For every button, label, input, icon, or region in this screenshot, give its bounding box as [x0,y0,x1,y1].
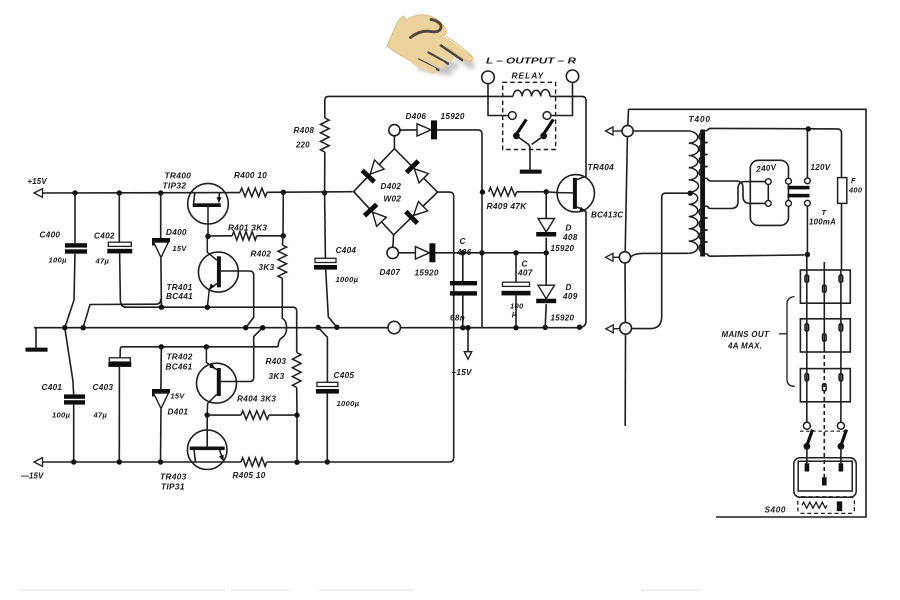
wire TR401 emitter to node [207,284,217,308]
wire mains neutral run [840,270,842,422]
mains section enclosure [629,109,867,517]
wire 0V centre rail [34,327,388,329]
svg-text:4A MAX.: 4A MAX. [727,342,762,351]
svg-text:D: D [566,283,572,292]
svg-text:100mA: 100mA [809,218,836,227]
wire R403 bottom to -15V rail [296,415,298,462]
svg-text:µ: µ [511,309,517,318]
mains out socket 2 [800,319,850,352]
svg-text:C403: C403 [93,383,114,392]
wire TR402 emitter from node line [206,347,216,370]
svg-text:MAINS OUT: MAINS OUT [722,330,770,339]
svg-text:S400: S400 [765,506,787,515]
wire 120V pin to top line [806,131,808,178]
svg-text:C: C [522,260,529,269]
relay coil [513,90,550,97]
wire primary tap crossover upper [708,179,766,204]
svg-text:R403: R403 [266,357,287,366]
transformer T400 primary winding lower [699,206,708,254]
resistor R400 10 [240,188,267,197]
svg-text:D406: D406 [406,112,427,121]
relay switch blade right [544,119,554,133]
mains plug connector outer [794,458,856,497]
wire mains live run [806,257,808,423]
mains plug connector inner [798,461,852,491]
svg-text:47µ: 47µ [95,257,110,266]
wire node line lower (D401/TR402e to R402) [122,346,278,348]
svg-text:—15V: —15V [20,472,44,481]
svg-text:RELAY: RELAY [512,71,545,81]
capacitor C402 [118,193,120,242]
wire primary top to 120V line [708,128,837,130]
svg-text:R400 10: R400 10 [234,171,267,180]
svg-text:TR402: TR402 [167,353,193,362]
svg-text:F: F [851,176,856,185]
voltage selector link bars [788,186,810,190]
wire output R to relay contact [551,82,573,115]
capacitor C407 100u [515,253,517,282]
svg-text:15V: 15V [171,392,186,401]
svg-text:120V: 120V [811,163,831,172]
junction dots on -15V rail [71,459,76,464]
resistor R403 3K3 [292,353,301,388]
transistor TR403 TIP31 [187,430,227,470]
svg-text:C402: C402 [94,232,115,241]
mains plug pin neutral [839,463,844,471]
svg-text:1000µ: 1000µ [337,399,360,408]
transistor TR402 BC461 [197,363,237,403]
diode bridge arm top-right [407,161,419,173]
node terminal to transformer top [622,125,633,136]
diode D408 15920 [545,192,547,219]
svg-text:D407: D407 [380,268,401,277]
svg-text:L – OUTPUT – R: L – OUTPUT – R [486,56,577,66]
wire node line upper (D400/TR401e to R403) [124,306,293,308]
svg-text:C400: C400 [40,231,61,240]
svg-text:68n: 68n [450,314,465,323]
svg-text:100µ: 100µ [49,256,68,265]
transistor TR404 BC413C [557,175,594,212]
junction dots on +15V rail [72,190,77,195]
svg-text:D: D [566,224,572,233]
mains plug pin live [805,463,810,471]
node bridge AC top terminal [393,136,395,149]
wire TR401 collector [207,236,217,260]
svg-text:R404 3K3: R404 3K3 [237,395,276,404]
svg-text:T400: T400 [689,114,711,124]
hand pointer icon [387,15,472,71]
voltage selector 240V block [750,160,788,225]
zener diode D401 15V [160,347,162,389]
transistor TR400 TIP32 [188,183,229,224]
diode bridge arm bottom-left [365,204,377,215]
mains plug pin earth [822,477,827,485]
fuse F400 T100mA [837,129,842,178]
resistor R404 3K3 [207,414,241,416]
wire enclosure left edge segments with terminals [627,109,630,125]
svg-text:15V: 15V [173,244,188,253]
capacitor C406 68n [462,253,464,281]
ground symbol below relay [520,170,542,174]
wire mains earth run [823,262,825,348]
wire R402 bottom jog across 0V rail to emitter line [278,278,286,347]
wire bridge negative to -15V rail [438,192,454,462]
svg-text:TIP31: TIP31 [161,482,185,492]
switch S400 pole left [803,422,810,429]
svg-text:W02: W02 [384,195,402,204]
diode D407 15920 [398,252,415,254]
wire TR403 emitter arrow [220,450,223,457]
svg-text:+15V: +15V [28,177,48,186]
svg-text:47µ: 47µ [93,411,108,420]
wire mains out leader bracket [779,333,787,335]
wire +15V rail [43,192,241,194]
svg-text:400: 400 [848,186,863,195]
resistor R405 10 [241,458,267,467]
diode bridge arm top-left [362,170,374,182]
junction dots on 0V rail [62,325,67,330]
svg-text:TR401: TR401 [167,283,193,292]
resistor R401 3K3 [208,235,232,237]
svg-text:100µ: 100µ [52,411,71,420]
svg-text:D401: D401 [168,408,189,417]
switch S400 pole right [837,422,844,429]
svg-text:15920: 15920 [415,269,439,278]
node +15V terminal arrow [34,189,43,198]
svg-text:R405 10: R405 10 [233,471,266,480]
diode D409 15920 [545,253,547,285]
node output terminal R [566,70,578,82]
node terminal centre tap [620,322,632,334]
transistor TR401 BC441 [198,252,238,292]
node bridge AC bottom terminal [392,235,395,247]
resistor element in S400 [802,502,827,508]
svg-text:D402: D402 [381,182,402,191]
wire TR403 base [206,415,208,446]
capacitor C403 [120,347,122,358]
svg-text:406: 406 [456,248,472,257]
mains out socket 1 [800,270,850,303]
wire TR402 base to 0V rail [221,328,263,382]
switch S400 dashed housing [798,497,855,514]
transformer T400 primary winding upper [699,131,708,179]
wire 240V link [767,185,769,201]
resistor R402 3K3 [278,245,287,278]
svg-text:TR403: TR403 [160,472,187,482]
svg-text:408: 408 [562,233,578,242]
node 120V pins [805,178,811,184]
transformer T400 secondary winding [633,130,689,132]
svg-text:409: 409 [562,292,578,301]
svg-text:R409 47K: R409 47K [487,201,528,211]
svg-text:15920: 15920 [551,244,575,253]
svg-text:407: 407 [517,269,533,278]
wire TR402 collector [207,394,217,415]
svg-text:R402: R402 [251,250,272,259]
wire D406 down-feed vertical [481,134,483,328]
svg-text:BC413C: BC413C [591,211,623,220]
switch S400 mechanical link [800,430,846,432]
node terminal to transformer bottom [619,252,630,263]
diode D406 15920 [400,129,417,131]
wire 120V pin down to mains junction [806,206,808,254]
node -15V stub terminal [467,328,469,352]
capacitor C404 1000u [324,193,327,258]
wire output L to relay contact [488,84,508,116]
node -15V terminal arrow [34,458,43,467]
svg-text:C405: C405 [334,371,355,380]
svg-text:15920: 15920 [441,112,465,121]
svg-text:TR404: TR404 [588,162,615,172]
capacitor C401 [65,328,74,395]
capacitor C405 1000u [318,327,327,382]
node output terminal L [482,71,495,84]
svg-text:BC461: BC461 [166,363,193,372]
svg-text:–15V: –15V [452,368,474,377]
relay enclosure dashed box [503,82,556,149]
wire primary tap crossover lower [708,182,766,209]
wire R400 junction down to R402 [282,192,284,236]
wire secondary centre tap [688,191,693,196]
relay switch blade left [517,119,527,133]
bridge rectifier D402 W02 outline [354,149,438,235]
resistor R408 220 [325,96,329,118]
svg-text:3K3: 3K3 [259,263,275,272]
diode bridge arm bottom-right [406,211,418,223]
svg-text:R408: R408 [294,126,315,135]
svg-text:1000µ: 1000µ [336,275,359,284]
wire TR401 base to 0V rail [221,271,254,328]
wire TR404 emitter to 0V rail [577,207,586,327]
svg-text:D400: D400 [166,228,187,237]
svg-text:TIP32: TIP32 [163,181,187,191]
svg-text:220: 220 [295,141,310,150]
svg-text:BC441: BC441 [166,292,193,301]
zener diode D400 15V [160,193,162,238]
wire primary bottom to mains [708,254,805,256]
transformer T400 core [700,130,705,257]
mains out socket 3 [800,369,850,402]
svg-text:3K3: 3K3 [269,372,285,381]
node output terminal circle on 0V rail [388,321,400,333]
svg-text:C401: C401 [42,383,63,392]
capacitor C400 [74,193,76,243]
resistor R409 47K [489,188,517,197]
wire relay common to ground [516,136,530,170]
svg-text:TR400: TR400 [165,171,192,181]
ground symbol [35,328,37,348]
svg-text:R401 3K3: R401 3K3 [228,224,267,233]
svg-text:C: C [460,237,467,246]
wire relay coil left to R408 [329,95,514,97]
wire from 0V rail to D400 cathode [83,299,161,328]
wire -15V rail [43,461,242,463]
scan artifact lines [20,590,225,592]
wire TR404 collector to relay coil [550,96,586,179]
svg-text:15920: 15920 [551,314,575,323]
svg-text:C404: C404 [336,246,357,255]
